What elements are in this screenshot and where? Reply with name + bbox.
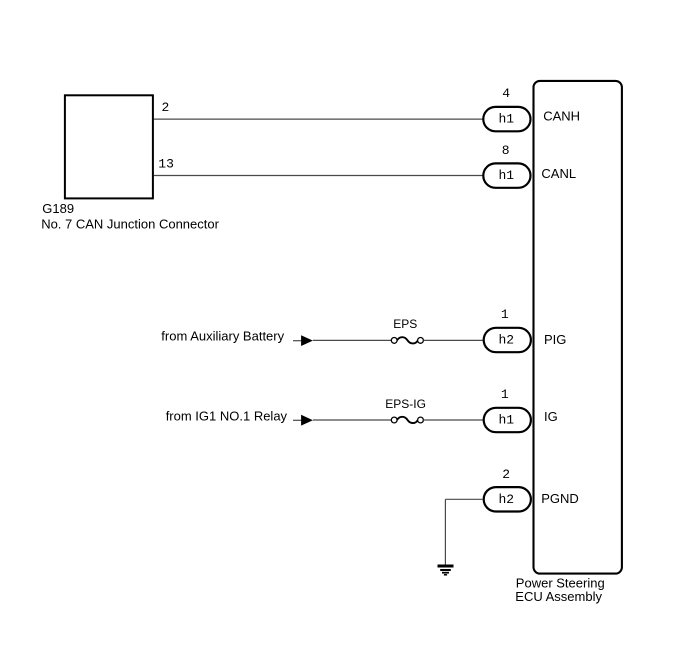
wire pin13 to CANL (154, 175, 483, 177)
svg-text:1: 1 (501, 307, 509, 322)
wire fuse to PIG pill (423, 339, 483, 341)
fuse EPS symbol (391, 338, 397, 344)
svg-text:h1: h1 (499, 112, 515, 127)
svg-text:8: 8 (502, 143, 510, 158)
ground symbol (438, 566, 454, 575)
svg-text:G189: G189 (42, 201, 74, 216)
wire arrow to fuse EPS (313, 339, 392, 341)
svg-text:EPS: EPS (393, 317, 417, 331)
Power Steering ECU Assembly box (534, 81, 622, 574)
svg-text:2: 2 (502, 467, 510, 482)
connector pill h2 PGND (484, 487, 531, 511)
svg-text:h1: h1 (499, 413, 515, 428)
svg-text:PIG: PIG (544, 332, 566, 347)
connector pill h1 CANL (483, 163, 530, 187)
svg-text:from IG1 NO.1 Relay: from IG1 NO.1 Relay (166, 409, 288, 424)
connector pill h1 CANH (483, 107, 530, 131)
svg-text:4: 4 (502, 86, 510, 101)
svg-text:h2: h2 (499, 492, 515, 507)
svg-text:13: 13 (158, 156, 174, 171)
wire arrow to fuse EPS-IG (313, 419, 392, 421)
connector pill h1 IG (484, 408, 531, 432)
svg-text:PGND: PGND (541, 491, 579, 506)
fuse EPS-IG symbol (391, 417, 397, 423)
arrow into PIG line (301, 335, 313, 346)
junction connector G189 box (65, 95, 153, 198)
connector pill h2 PIG (484, 328, 531, 352)
svg-text:ECU Assembly: ECU Assembly (515, 589, 602, 604)
svg-text:IG: IG (544, 409, 558, 424)
svg-text:No. 7 CAN Junction Connector: No. 7 CAN Junction Connector (41, 216, 219, 231)
wire stub to arrow (293, 419, 301, 421)
svg-text:h2: h2 (499, 332, 515, 347)
svg-text:h1: h1 (499, 168, 515, 183)
wire PGND pill to ground, horizontal (445, 498, 482, 500)
svg-text:EPS-IG: EPS-IG (385, 397, 426, 411)
wire stub to arrow (293, 340, 301, 342)
svg-text:1: 1 (501, 387, 509, 402)
wire PGND down to ground (444, 499, 446, 565)
svg-text:from Auxiliary Battery: from Auxiliary Battery (161, 329, 284, 344)
wire pin2 to CANH (154, 118, 483, 120)
wire fuse to IG pill (423, 419, 483, 421)
svg-text:CANL: CANL (541, 166, 576, 181)
arrow into IG line (301, 415, 313, 426)
svg-text:2: 2 (162, 100, 170, 115)
svg-text:CANH: CANH (543, 108, 580, 123)
